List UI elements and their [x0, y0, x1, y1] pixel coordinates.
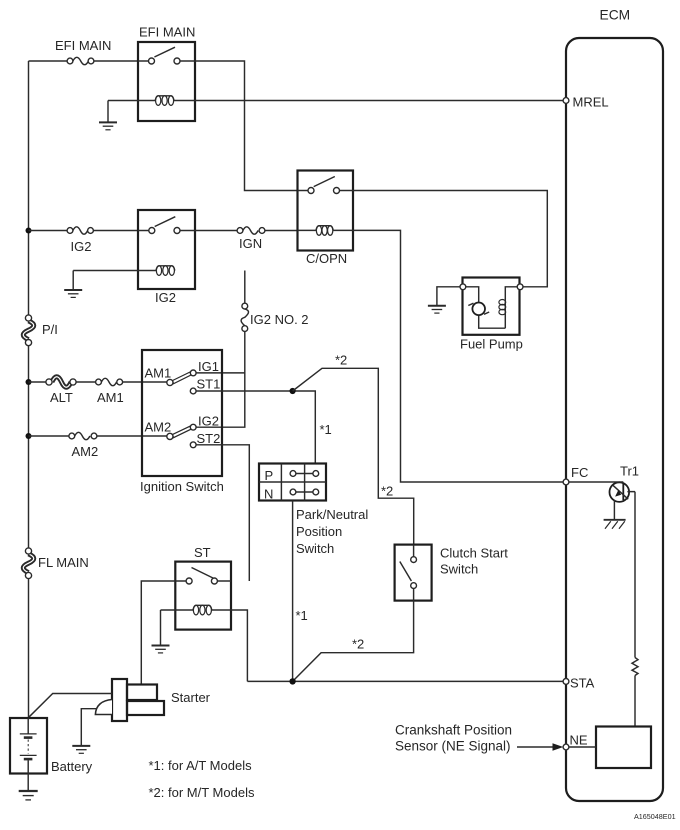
svg-text:*2: *2	[335, 353, 347, 368]
svg-text:Sensor (NE Signal): Sensor (NE Signal)	[395, 739, 511, 754]
battery	[10, 718, 93, 774]
svg-text:N: N	[264, 486, 273, 501]
svg-text:AM1: AM1	[97, 390, 124, 405]
wire *2 upper branch	[293, 368, 414, 544]
svg-text:Park/Neutral: Park/Neutral	[296, 507, 368, 522]
relay ST	[161, 545, 232, 630]
svg-text:ECM: ECM	[600, 8, 631, 23]
svg-text:IG2: IG2	[71, 239, 92, 254]
svg-text:C/OPN: C/OPN	[306, 251, 347, 266]
svg-text:Battery: Battery	[51, 759, 93, 774]
wire STA line	[247, 680, 563, 682]
fuse AM1	[96, 378, 124, 405]
svg-text:P/I: P/I	[42, 322, 58, 337]
ground starter	[72, 709, 96, 754]
wire ST switch left to starter	[141, 581, 175, 684]
ECM box	[566, 8, 663, 802]
wire AM2 feed	[29, 435, 167, 437]
svg-text:Tr1: Tr1	[620, 464, 639, 479]
node AM1 bus junction	[26, 379, 32, 385]
svg-text:FC: FC	[571, 465, 588, 480]
svg-text:Switch: Switch	[440, 562, 478, 577]
svg-text:EFI MAIN: EFI MAIN	[139, 25, 195, 40]
wire IG2 relay to IGN fuse to C/OPN coil	[195, 230, 298, 232]
wire IG2 NO.2 to IG1 and IG2 contacts	[196, 332, 245, 428]
wire AM1 feed	[29, 381, 167, 383]
svg-text:IG2: IG2	[198, 413, 219, 428]
pin STA	[563, 676, 595, 691]
ground ST relay	[152, 610, 170, 653]
wire C/OPN switch to fuel pump	[353, 191, 547, 287]
svg-text:ST2: ST2	[197, 431, 221, 446]
NE signal box in ECM	[569, 727, 651, 769]
svg-text:NE: NE	[570, 733, 588, 748]
svg-text:IG2: IG2	[155, 290, 176, 305]
wire C/OPN coil to FC	[333, 230, 563, 482]
pin NE	[563, 733, 588, 750]
svg-text:Switch: Switch	[296, 541, 334, 556]
ground battery	[19, 774, 38, 800]
wire ST coil to STA line	[231, 610, 247, 681]
ground EFI MAIN relay	[99, 101, 117, 130]
node starter junction	[289, 678, 295, 684]
svg-text:IG1: IG1	[198, 359, 219, 374]
svg-text:*2: *2	[352, 637, 364, 652]
wire EFI relay to MREL	[174, 100, 563, 102]
transistor Tr1	[569, 464, 639, 520]
svg-text:ST1: ST1	[197, 377, 221, 392]
park/neutral position switch	[259, 464, 368, 557]
svg-text:ALT: ALT	[50, 390, 73, 405]
svg-text:Ignition Switch: Ignition Switch	[140, 479, 224, 494]
ignition switch	[140, 350, 224, 494]
wire EFI switch to C/OPN	[195, 61, 298, 191]
wire ST1 to PN switch	[196, 391, 315, 463]
wire IG2 feed	[29, 230, 139, 232]
crankshaft position sensor note	[395, 723, 563, 754]
wire top EFI MAIN feed	[29, 60, 139, 62]
svg-text:*2: *2	[381, 484, 393, 499]
svg-text:MREL: MREL	[573, 95, 609, 110]
svg-text:IG2 NO. 2: IG2 NO. 2	[250, 312, 309, 327]
svg-text:AM2: AM2	[72, 444, 99, 459]
wire left battery bus	[28, 61, 30, 718]
svg-text:Crankshaft Position: Crankshaft Position	[395, 723, 512, 738]
svg-text:EFI MAIN: EFI MAIN	[55, 38, 111, 53]
relay EFI MAIN	[108, 25, 195, 122]
svg-text:*2: for M/T Models: *2: for M/T Models	[149, 785, 255, 800]
fusible link P/I	[23, 315, 58, 346]
ground Tr1 chassis	[604, 520, 626, 529]
fuse IG2	[67, 227, 93, 254]
ground fuel pump	[428, 287, 460, 313]
starter	[95, 679, 210, 721]
svg-text:FL MAIN: FL MAIN	[38, 555, 89, 570]
wire battery to starter	[28, 694, 112, 718]
node AM2 bus junction	[26, 433, 32, 439]
svg-text:Fuel Pump: Fuel Pump	[460, 337, 523, 352]
svg-text:AM1: AM1	[145, 366, 172, 381]
fusible link ALT	[46, 377, 76, 405]
relay IG2	[73, 210, 195, 305]
node ST1 junction	[290, 388, 296, 394]
svg-text:*1: *1	[296, 608, 308, 623]
fusible link FL MAIN	[23, 548, 89, 579]
relay C/OPN	[298, 171, 354, 267]
svg-text:Position: Position	[296, 524, 342, 539]
fuse EFI MAIN	[55, 38, 111, 65]
svg-text:ST: ST	[194, 545, 211, 560]
svg-text:*1: for A/T Models: *1: for A/T Models	[149, 758, 253, 773]
resistor in ECM	[632, 492, 638, 727]
svg-text:Clutch Start: Clutch Start	[440, 546, 508, 561]
svg-text:IGN: IGN	[239, 236, 262, 251]
svg-text:P: P	[265, 468, 274, 483]
wire *1 PN output to junction	[292, 501, 294, 682]
pin FC	[563, 465, 588, 485]
pin MREL	[563, 95, 609, 110]
fuse AM2	[69, 432, 98, 459]
fuse IGN	[237, 227, 265, 251]
ground IG2 relay	[64, 271, 82, 298]
svg-text:STA: STA	[570, 676, 595, 691]
svg-text:AM2: AM2	[145, 420, 172, 435]
clutch start switch	[395, 545, 509, 601]
node IG2 bus junction	[26, 228, 32, 234]
fuel pump	[460, 278, 523, 352]
svg-text:Starter: Starter	[171, 690, 211, 705]
wire *2 clutch to junction	[293, 601, 414, 682]
fuse IG2 NO. 2	[241, 271, 308, 332]
wire ST2 to ST relay	[196, 445, 249, 581]
svg-text:A165048E01: A165048E01	[634, 812, 676, 821]
svg-text:*1: *1	[320, 422, 332, 437]
